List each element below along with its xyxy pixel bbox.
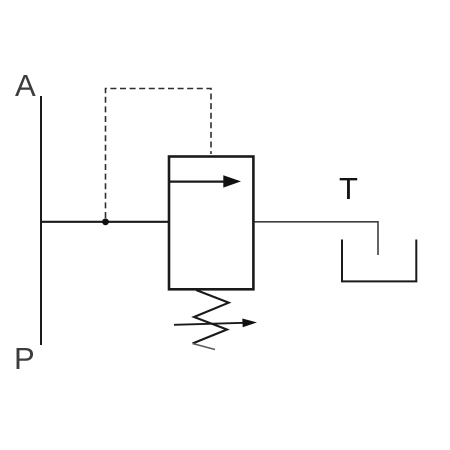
svg-text:P: P	[14, 341, 35, 376]
wire valve outlet to tank	[255, 222, 379, 255]
wire P to valve inlet	[41, 221, 169, 223]
svg-text:A: A	[15, 68, 36, 103]
spring zigzag	[193, 290, 229, 344]
flow arrow shaft	[170, 180, 226, 182]
spring last coil (light)	[193, 344, 216, 350]
flow arrowhead	[223, 175, 241, 187]
tank symbol	[342, 240, 416, 282]
pilot line (dashed)	[106, 89, 212, 219]
valve body rectangle	[169, 157, 253, 290]
svg-text:T: T	[339, 171, 358, 206]
node junction dot	[102, 218, 109, 225]
adjustment arrowhead	[242, 319, 257, 328]
adjustment arrow shaft	[174, 323, 244, 325]
wire P-A vertical line	[40, 96, 42, 345]
